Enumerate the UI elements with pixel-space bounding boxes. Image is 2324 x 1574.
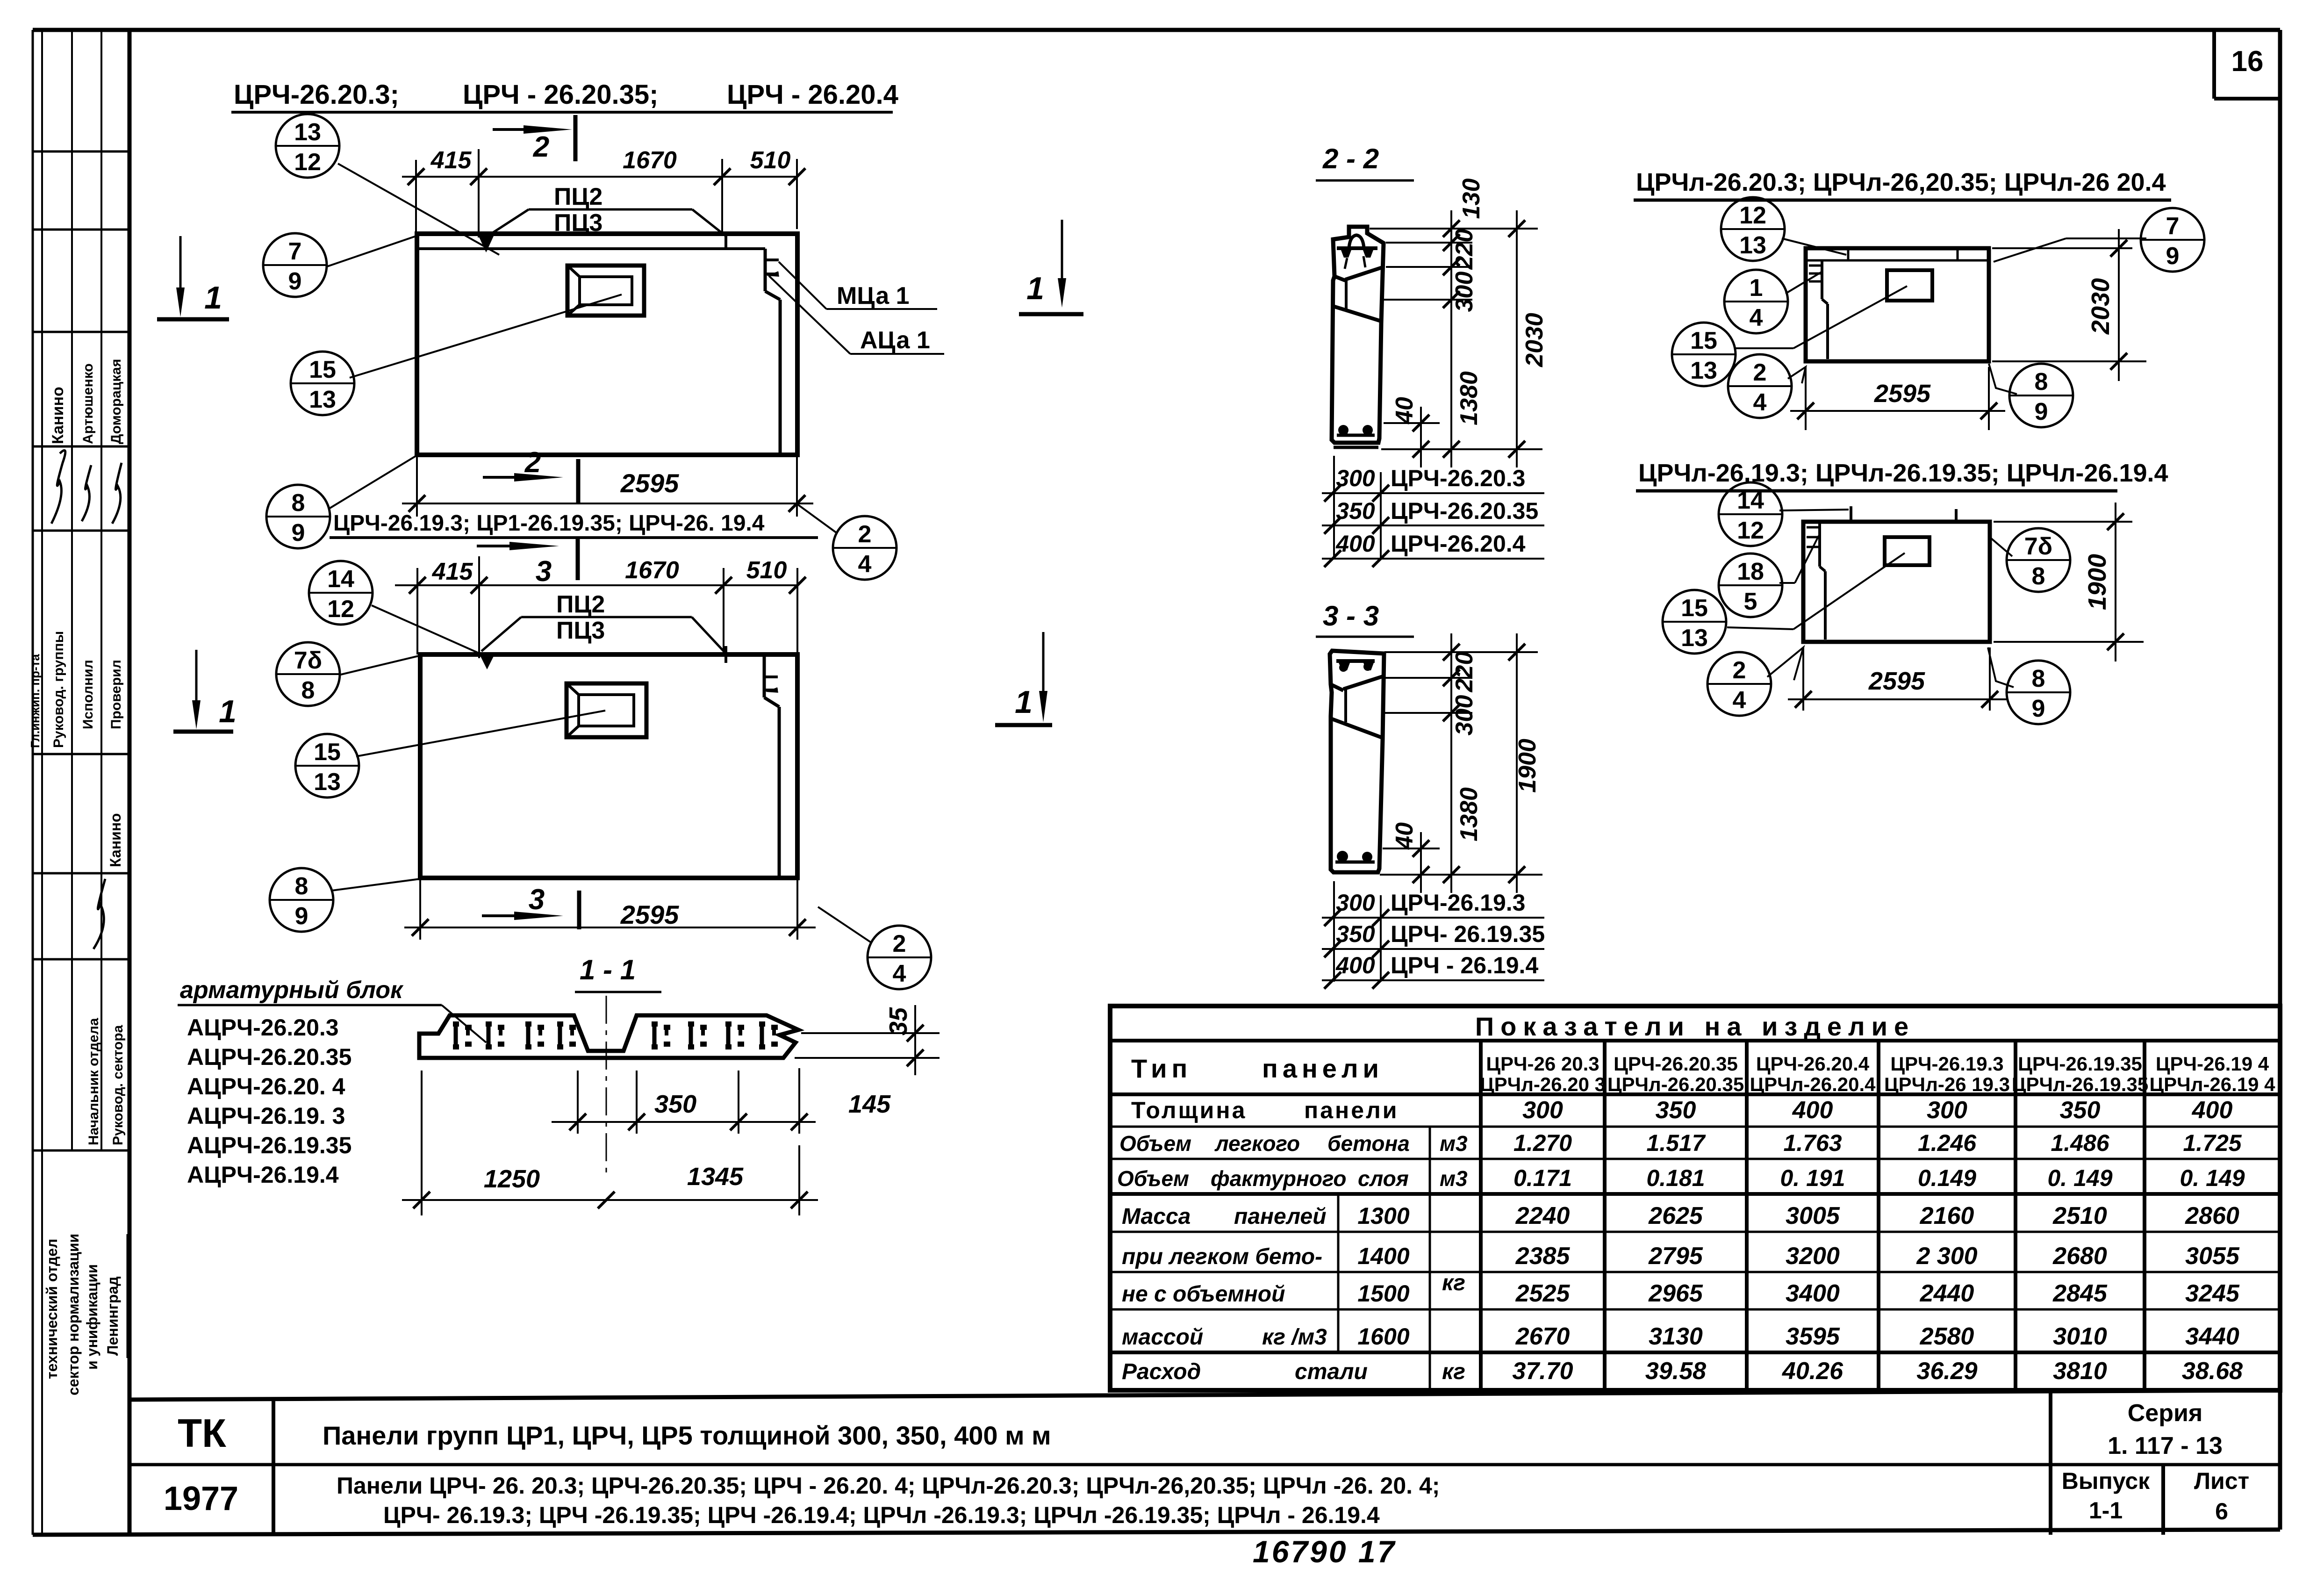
svg-text:9: 9 [292, 519, 305, 546]
svg-text:Серия: Серия [2128, 1400, 2203, 1427]
svg-text:Ленинград: Ленинград [104, 1276, 121, 1356]
svg-text:1600: 1600 [1357, 1323, 1409, 1350]
callout 14/12 [309, 561, 373, 625]
mini table 3-3 [1322, 881, 1545, 989]
svg-text:2680: 2680 [2052, 1243, 2107, 1270]
svg-text:2860: 2860 [2185, 1202, 2239, 1229]
svg-text:1: 1 [204, 280, 222, 316]
callout 13/12 [276, 114, 339, 178]
leader 2/4 panel2 [818, 907, 870, 942]
armature list [187, 1014, 351, 1188]
svg-text:1500: 1500 [1357, 1280, 1409, 1307]
svg-text:ЦРЧ- 26.19.35: ЦРЧ- 26.19.35 [1391, 921, 1545, 947]
section 2-2 head rebar [1337, 248, 1377, 269]
right panel 1 strip joints [1847, 248, 1850, 260]
svg-text:40: 40 [1391, 822, 1418, 850]
stamp column lines [41, 30, 43, 1535]
callout 2/4 (below panel 1 right) [833, 516, 897, 580]
svg-text:Начальник отдела: Начальник отдела [86, 1018, 101, 1145]
svg-text:1.725: 1.725 [2183, 1130, 2242, 1156]
svg-text:Проверил: Проверил [108, 660, 124, 729]
svg-text:АЦРЧ-26.20. 4: АЦРЧ-26.20. 4 [187, 1073, 345, 1100]
svg-text:4: 4 [893, 960, 906, 987]
svg-text:14: 14 [1737, 487, 1764, 514]
svg-text:Гл.инжип. пр-та: Гл.инжип. пр-та [28, 654, 42, 748]
svg-text:415: 415 [432, 558, 473, 585]
svg-text:2 300: 2 300 [1916, 1243, 1977, 1270]
table mass rows [1122, 1202, 2240, 1350]
dim 415 (panel 2) [395, 556, 724, 658]
leader 2/4 panel1 [797, 504, 837, 533]
panel 2 outline [420, 654, 797, 878]
svg-text:400: 400 [1792, 1097, 1833, 1124]
svg-text:ЦРЧ-26.19.3: ЦРЧ-26.19.3 [1890, 1053, 2003, 1075]
svg-text:2965: 2965 [1648, 1280, 1703, 1307]
panel 2 right end rebate [764, 656, 779, 876]
svg-text:8: 8 [301, 677, 315, 704]
svg-text:Объем: Объем [1119, 1131, 1191, 1156]
section 2-2 inner vertical [1345, 280, 1348, 310]
svg-text:Тип: Тип [1131, 1054, 1192, 1083]
svg-text:12: 12 [1739, 202, 1766, 229]
svg-text:415: 415 [430, 147, 472, 174]
right panel 1 left rebate [1809, 260, 1828, 359]
svg-text:2595: 2595 [1868, 667, 1925, 695]
svg-text:9: 9 [2166, 243, 2180, 270]
callout 7/9 (right panel 1) [2141, 208, 2204, 272]
stamp row lines [33, 151, 129, 153]
callout 8/9 (panel 2) [270, 868, 333, 932]
svg-text:арматурный блок: арматурный блок [180, 977, 404, 1004]
svg-text:ЦРЧ-26.20.3: ЦРЧ-26.20.3 [1391, 465, 1525, 491]
vypusk cell [2062, 1468, 2150, 1524]
leader 13/12 [338, 164, 499, 255]
svg-text:не с объемной: не с объемной [1122, 1282, 1285, 1307]
svg-text:350: 350 [654, 1090, 696, 1118]
section 2-2 profile outline [1332, 227, 1384, 443]
dim 145 (section 1-1) [729, 1068, 891, 1134]
svg-text:3200: 3200 [1786, 1243, 1840, 1270]
svg-text:2 - 2: 2 - 2 [1322, 143, 1379, 174]
svg-text:0.181: 0.181 [1646, 1165, 1705, 1191]
stamp names row [49, 359, 124, 444]
svg-text:8: 8 [2032, 563, 2045, 590]
callout 2/4 (right panel 2) [1707, 652, 1771, 716]
svg-text:2525: 2525 [1515, 1280, 1571, 1307]
svg-text:АЦа 1: АЦа 1 [860, 327, 930, 354]
section mark 3 bottom [482, 884, 579, 929]
svg-text:3130: 3130 [1649, 1323, 1703, 1350]
dims section 2-2 [1370, 179, 1548, 467]
sheet number box [2214, 30, 2280, 99]
svg-text:ЦРЧ-26.19 4: ЦРЧ-26.19 4 [2156, 1053, 2269, 1075]
stamp institution block [43, 1234, 127, 1395]
svg-text:2: 2 [893, 930, 906, 957]
leader 7/9 [327, 236, 416, 266]
svg-text:Канино: Канино [107, 813, 124, 867]
callout 15/13 (right panel 1) [1672, 323, 1736, 386]
svg-text:300: 300 [1336, 465, 1375, 491]
section 2-2 title [1316, 143, 1414, 180]
svg-text:36.29: 36.29 [1916, 1358, 1977, 1385]
section 3-3 feet [1335, 851, 1375, 862]
svg-text:Объем: Объем [1117, 1166, 1189, 1191]
svg-text:2625: 2625 [1648, 1202, 1703, 1229]
svg-text:7: 7 [288, 238, 302, 265]
section 1-1 profile [419, 1015, 798, 1058]
svg-text:ЦРЧ-26.20.35: ЦРЧ-26.20.35 [1391, 498, 1538, 524]
svg-text:300: 300 [1522, 1097, 1563, 1124]
svg-text:Руковод. группы: Руковод. группы [51, 631, 66, 748]
svg-text:1670: 1670 [625, 557, 679, 584]
svg-text:2580: 2580 [1920, 1323, 1974, 1350]
svg-text:МЦа 1: МЦа 1 [837, 282, 910, 309]
section 2-2 groove 2 [1333, 306, 1383, 322]
svg-text:38.68: 38.68 [2182, 1358, 2243, 1385]
section mark 1 right (panel 2) [995, 632, 1052, 725]
right panel 2 niche [1885, 537, 1929, 565]
stamp second signature [93, 879, 105, 949]
svg-text:1250: 1250 [484, 1165, 540, 1193]
svg-text:1.517: 1.517 [1646, 1130, 1706, 1156]
callout 15/13 (right panel 2) [1663, 590, 1726, 654]
svg-text:145: 145 [848, 1090, 891, 1118]
svg-text:АЦРЧ-26.20.3: АЦРЧ-26.20.3 [187, 1014, 339, 1041]
svg-text:9: 9 [295, 903, 308, 930]
svg-text:7δ: 7δ [2024, 533, 2052, 560]
callout 7d/8 (right panel 2) [2007, 528, 2070, 592]
svg-text:ЦРЧл-26.20.4: ЦРЧл-26.20.4 [1750, 1073, 1876, 1095]
svg-text:3245: 3245 [2185, 1280, 2240, 1307]
callout 1/4 (right panel 1) [1724, 270, 1788, 333]
section 1-1 rebar marks [453, 1021, 778, 1049]
main frame right border [2278, 30, 2282, 1530]
right panel 1 niche [1887, 270, 1932, 301]
svg-text:бетона: бетона [1327, 1131, 1410, 1156]
section mark 1 right (panel 1) [1019, 220, 1083, 314]
svg-text:Толщина: Толщина [1131, 1097, 1247, 1123]
svg-text:ЦРЧ - 26.19.4: ЦРЧ - 26.19.4 [1391, 952, 1538, 978]
title CRCHL-26.20 group [1634, 168, 2171, 200]
leader niche to 15/13 (panel 1) [350, 295, 622, 378]
svg-text:1670: 1670 [623, 147, 677, 174]
svg-text:8: 8 [295, 873, 308, 900]
title CRCHL-26.19 group [1636, 459, 2168, 491]
svg-text:при легком бето-: при легком бето- [1122, 1244, 1322, 1269]
label armaturny blok [178, 977, 486, 1042]
svg-text:кг: кг [1442, 1271, 1465, 1295]
section mark 1 left (panel 1) [157, 236, 229, 319]
leader 14/12 [372, 605, 478, 653]
svg-text:35: 35 [884, 1007, 912, 1035]
callout 8/9 (right panel 2) [2007, 661, 2070, 724]
leader 8/9 (right panel 2) [1988, 647, 2014, 687]
svg-text:кг: кг [1442, 1359, 1465, 1384]
svg-text:37.70: 37.70 [1512, 1358, 1573, 1385]
svg-text:ЦРЧ-26.19.3; ЦР1-26.19.35; ЦР: ЦРЧ-26.19.3; ЦР1-26.19.35; ЦРЧ-26. 19.4 [333, 511, 765, 536]
svg-text:АЦРЧ-26.19.35: АЦРЧ-26.19.35 [187, 1132, 351, 1158]
svg-text:300: 300 [1451, 272, 1478, 312]
svg-text:ПЦ3: ПЦ3 [556, 617, 605, 644]
right panel 2 outline [1803, 522, 1990, 642]
svg-text:3400: 3400 [1786, 1280, 1840, 1307]
panel 1 right end rebate [765, 249, 780, 453]
svg-text:3595: 3595 [1786, 1323, 1840, 1350]
leader 15/13 to niche (right panel 1) [1735, 286, 1907, 348]
section 2-2 lifting loop [1349, 235, 1364, 248]
svg-text:13: 13 [309, 386, 336, 413]
svg-text:2: 2 [858, 521, 872, 548]
dim 2595 (panel 2) [404, 878, 816, 940]
label PC2/PC3 leader roof (panel 2) [480, 591, 725, 669]
svg-text:15: 15 [1690, 327, 1717, 354]
callout 2/4 (right panel 1) [1728, 354, 1792, 418]
section mark 2 bottom [483, 446, 578, 504]
svg-text:1: 1 [1750, 274, 1763, 302]
svg-text:АЦРЧ-26.19. 3: АЦРЧ-26.19. 3 [187, 1103, 345, 1129]
label PC2/PC3 leader roof (panel 1) [479, 183, 726, 252]
svg-text:2240: 2240 [1515, 1202, 1570, 1229]
svg-text:15: 15 [309, 356, 336, 383]
stamp dept labels [86, 1018, 126, 1145]
svg-text:4: 4 [858, 551, 872, 578]
dim 415 (panel 1) [402, 147, 722, 237]
svg-text:ЦРЧ-26.20.4: ЦРЧ-26.20.4 [1756, 1053, 1870, 1075]
svg-text:13: 13 [314, 769, 341, 796]
leader 7d/8 (right panel 2) [1990, 538, 2012, 556]
callout 7d/8 [276, 642, 340, 706]
svg-text:сектор нормализации: сектор нормализации [65, 1234, 82, 1395]
svg-text:ЦРЧ-26.19.3: ЦРЧ-26.19.3 [1391, 890, 1525, 916]
leader niche to 15/13 (panel 2) [356, 711, 605, 756]
svg-text:ЦРЧл-26 19.3: ЦРЧл-26 19.3 [1884, 1073, 2010, 1095]
leader 7/9 (right panel 1) [1994, 238, 2146, 262]
svg-text:ЦРЧ- 26.19.3; ЦРЧ -26.19: ЦРЧ- 26.19.3; ЦРЧ -26.19.35; ЦРЧ -26.19.… [383, 1502, 1380, 1528]
svg-text:1: 1 [1015, 684, 1033, 720]
svg-text:м3: м3 [1440, 1166, 1468, 1191]
leader 8/9 (right panel 1) [1989, 364, 2017, 394]
svg-text:2: 2 [533, 131, 549, 163]
svg-text:ЦРЧл-26.19.35: ЦРЧл-26.19.35 [2012, 1073, 2148, 1095]
svg-text:1.763: 1.763 [1783, 1130, 1842, 1156]
svg-text:Исполнил: Исполнил [80, 660, 96, 729]
svg-text:0. 149: 0. 149 [2180, 1165, 2245, 1191]
svg-text:2160: 2160 [1920, 1202, 1974, 1229]
svg-text:350: 350 [2060, 1097, 2101, 1124]
svg-text:Канино: Канино [49, 387, 67, 444]
svg-text:2: 2 [1753, 359, 1767, 386]
svg-text:2510: 2510 [2052, 1202, 2107, 1229]
svg-text:1 - 1: 1 - 1 [580, 954, 636, 985]
leader 15/13 to niche (right panel 2) [1727, 553, 1905, 629]
panel 1 strip joint [724, 234, 727, 249]
callout 12/13 [1721, 197, 1785, 261]
svg-text:2385: 2385 [1515, 1243, 1571, 1270]
svg-text:15: 15 [314, 739, 341, 766]
svg-text:ЦРЧ-26.20.3;: ЦРЧ-26.20.3; [234, 79, 399, 110]
table row rashod stali [1122, 1358, 2243, 1385]
svg-text:3005: 3005 [1786, 1202, 1840, 1229]
svg-text:15: 15 [1681, 595, 1708, 622]
svg-text:13: 13 [1690, 357, 1717, 384]
section mark 2 top [493, 115, 575, 163]
svg-text:4: 4 [1750, 304, 1763, 331]
svg-text:8: 8 [2032, 665, 2045, 692]
svg-text:12: 12 [327, 596, 354, 623]
svg-text:2595: 2595 [620, 900, 679, 929]
svg-text:ЦРЧ - 26.20.4: ЦРЧ - 26.20.4 [727, 79, 898, 110]
svg-text:ПЦ2: ПЦ2 [556, 591, 605, 618]
svg-text:130: 130 [1458, 179, 1485, 219]
dims section 3-3 [1380, 633, 1542, 893]
main frame top border [33, 28, 2280, 32]
svg-text:6: 6 [2215, 1498, 2228, 1524]
svg-text:13: 13 [294, 119, 321, 146]
svg-text:1-1: 1-1 [2089, 1497, 2123, 1524]
svg-text:13: 13 [1681, 625, 1708, 652]
right panel 1 top strip [1806, 259, 1989, 262]
svg-text:Панели групп ЦР1, ЦРЧ,: Панели групп ЦР1, ЦРЧ, ЦР5 толщиной 300,… [323, 1421, 1051, 1450]
svg-text:панелей: панелей [1234, 1204, 1327, 1229]
label MCa1 [779, 262, 937, 309]
panel 1 outline [417, 234, 797, 455]
right panel 2 top joints [1850, 506, 1852, 522]
svg-text:фактурного: фактурного [1211, 1166, 1346, 1191]
dim 1250/1345 (section 1-1) [402, 1071, 818, 1215]
svg-text:м3: м3 [1440, 1131, 1468, 1156]
svg-text:АЦРЧ-26.20.35: АЦРЧ-26.20.35 [187, 1044, 351, 1070]
svg-text:2595: 2595 [620, 468, 679, 498]
svg-text:1400: 1400 [1357, 1243, 1409, 1269]
svg-text:Артюшенко: Артюшенко [80, 363, 96, 444]
svg-text:ПЦ2: ПЦ2 [554, 183, 603, 210]
svg-text:3: 3 [529, 884, 545, 916]
svg-text:Руковод. сектора: Руковод. сектора [110, 1025, 126, 1145]
section 1-1 title [575, 954, 661, 992]
seria cell [2108, 1400, 2223, 1459]
svg-text:слоя: слоя [1358, 1166, 1409, 1191]
leader 8/9 [329, 455, 417, 509]
callout 8/9 (right panel 1) [2009, 364, 2073, 427]
section 3-3 inner vertical [1344, 689, 1347, 722]
table row tolschina [1131, 1097, 2232, 1124]
svg-text:1345: 1345 [687, 1163, 744, 1191]
panel 2 niche [567, 683, 646, 737]
main frame bottom border [33, 1530, 2280, 1535]
svg-text:2030: 2030 [2087, 278, 2115, 335]
svg-text:панели: панели [1304, 1097, 1399, 1123]
svg-text:3440: 3440 [2185, 1323, 2239, 1350]
section mark 1 left (panel 2) [173, 650, 237, 732]
dim 2030 (right panel 1) [1992, 229, 2146, 381]
leader 8/9 (panel 2) [332, 879, 420, 891]
svg-text:5: 5 [1744, 588, 1757, 615]
svg-text:Масса: Масса [1122, 1204, 1191, 1229]
table row obyom legkogo betona [1119, 1130, 2242, 1156]
panel 2 top joint tick [724, 646, 727, 663]
dim 1900 (right panel 2) [1994, 503, 2144, 661]
svg-text:технический отдел: технический отдел [43, 1239, 60, 1379]
right panel 2 left rebate [1807, 522, 1825, 640]
dim 510 (panel 2) [746, 557, 806, 652]
section 3-3 groove 1 [1331, 676, 1384, 690]
svg-text:16: 16 [2231, 45, 2264, 78]
svg-text:ЦРЧл-26.20.3; ЦРЧл-26,20.35;: ЦРЧл-26.20.3; ЦРЧл-26,20.35; ЦРЧл-26 20.… [1636, 168, 2166, 196]
leader 1/4 [1786, 271, 1823, 294]
stamp signatures [51, 450, 122, 524]
svg-text:1.270: 1.270 [1513, 1130, 1572, 1156]
svg-text:ЦРЧ-26.20.35: ЦРЧ-26.20.35 [1614, 1053, 1738, 1075]
svg-text:ЦРЧл-26.20.35: ЦРЧл-26.20.35 [1607, 1073, 1744, 1095]
svg-text:9: 9 [2035, 398, 2048, 425]
svg-text:400: 400 [2192, 1097, 2233, 1124]
svg-text:легкого: легкого [1214, 1131, 1300, 1156]
svg-text:панели: панели [1262, 1054, 1384, 1083]
leader 18/5 [1779, 536, 1819, 583]
svg-text:1: 1 [1026, 271, 1044, 306]
svg-text:1900: 1900 [2083, 554, 2111, 610]
callout 15/13 (panel 2) [295, 734, 359, 798]
mini table 2-2 [1322, 456, 1544, 567]
dim 350 (section 1-1) [552, 1071, 729, 1134]
section 3-3 profile outline [1330, 651, 1384, 872]
svg-text:2440: 2440 [1920, 1280, 1974, 1307]
panel 1 niche [567, 266, 644, 316]
leader 14/12 (right panel 2) [1779, 510, 1849, 510]
svg-text:4: 4 [1753, 389, 1767, 416]
svg-text:300: 300 [1927, 1097, 1967, 1124]
title block frame [129, 1390, 2280, 1535]
svg-text:4: 4 [1733, 687, 1746, 714]
svg-text:7: 7 [2166, 213, 2180, 240]
section 2-2 feet [1337, 425, 1375, 435]
svg-text:кг /м3: кг /м3 [1262, 1325, 1327, 1350]
svg-text:ЦРЧл-26.20 3: ЦРЧл-26.20 3 [1480, 1073, 1606, 1095]
svg-text:300: 300 [1336, 890, 1375, 916]
dim 510 (panel 1) [750, 147, 805, 229]
stamp role labels [28, 631, 124, 748]
svg-text:510: 510 [750, 147, 791, 174]
svg-text:ЦРЧ-26.19.35: ЦРЧ-26.19.35 [2018, 1053, 2142, 1075]
dim 2595 (panel 1) [402, 455, 813, 517]
table Pokazateli na izdelie [1110, 1006, 2280, 1390]
svg-text:1380: 1380 [1456, 787, 1483, 841]
svg-text:3 - 3: 3 - 3 [1323, 600, 1379, 632]
svg-text:0.171: 0.171 [1513, 1165, 1572, 1191]
svg-text:3010: 3010 [2053, 1323, 2107, 1350]
svg-text:14: 14 [327, 566, 354, 593]
svg-text:2795: 2795 [1648, 1243, 1703, 1270]
section 3-3 groove 2 [1331, 719, 1382, 738]
svg-text:2845: 2845 [2052, 1280, 2108, 1307]
svg-text:0. 191: 0. 191 [1780, 1165, 1845, 1191]
svg-text:1.246: 1.246 [1918, 1130, 1977, 1156]
leader 7d/8 [341, 656, 419, 675]
svg-text:ЦРЧ-26 20.3: ЦРЧ-26 20.3 [1486, 1053, 1599, 1075]
list cell [2194, 1468, 2249, 1524]
svg-text:2595: 2595 [1874, 380, 1931, 408]
svg-text:стали: стали [1295, 1359, 1368, 1384]
paper edge line [32, 30, 34, 1535]
callout 18/5 [1719, 553, 1782, 617]
svg-text:3810: 3810 [2053, 1358, 2107, 1385]
svg-text:7δ: 7δ [294, 647, 322, 674]
svg-text:13: 13 [1739, 232, 1766, 259]
callout 15/13 (panel 1) [291, 352, 354, 415]
callout 14/12 (right panel 2) [1719, 482, 1782, 546]
svg-text:1. 117 - 13: 1. 117 - 13 [2108, 1432, 2223, 1459]
svg-text:и унификации: и унификации [84, 1264, 100, 1370]
